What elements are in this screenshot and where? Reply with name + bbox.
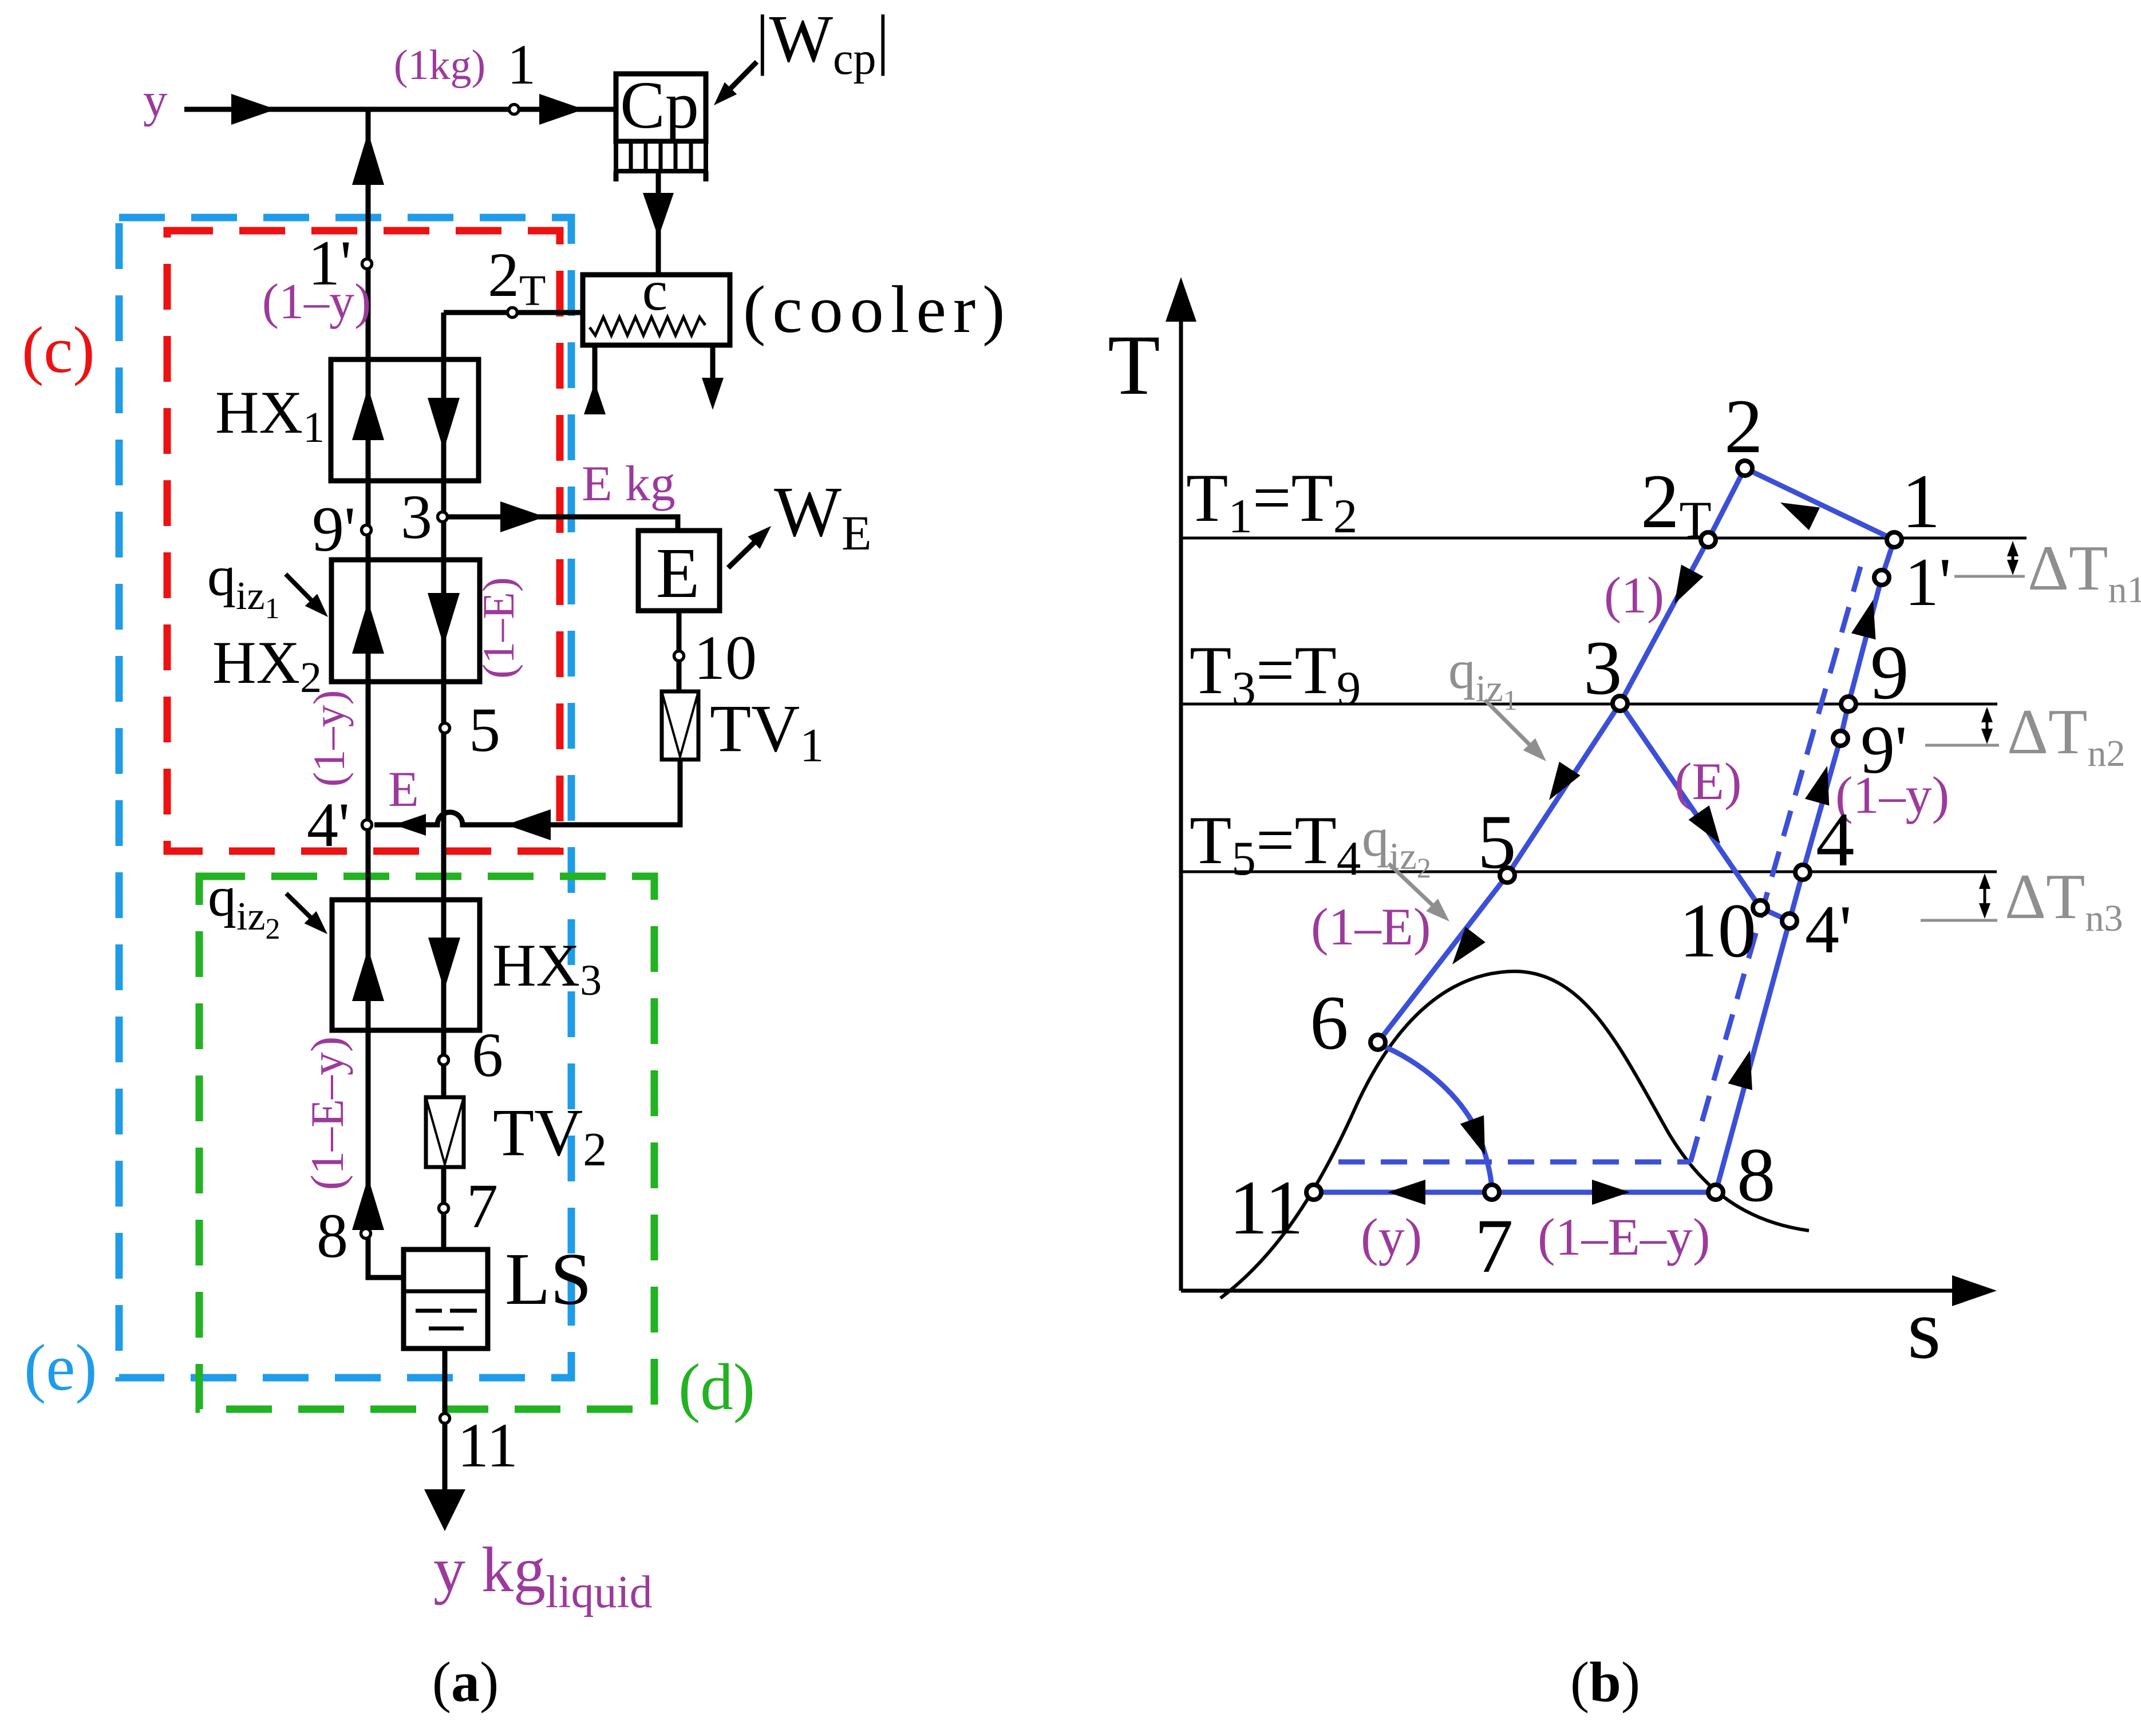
svg-text:Cp: Cp — [620, 68, 699, 143]
annotation arrow qiz1 gray — [1485, 700, 1530, 745]
svg-text:3: 3 — [401, 482, 432, 552]
annotation arrow qiz2 gray — [1389, 864, 1433, 905]
isotherm T3=T9 — [1181, 703, 1997, 706]
arrow up toward junction — [352, 132, 384, 185]
svg-text:1: 1 — [1902, 459, 1941, 544]
node 8 — [361, 1229, 371, 1239]
svg-text:(1–y): (1–y) — [262, 274, 372, 330]
svg-text:(1–E): (1–E) — [1311, 897, 1431, 956]
cycle line 2 to 2T to 3 to 5 to 6 — [1378, 468, 1745, 1042]
svg-text:(a): (a) — [432, 1650, 499, 1714]
wire cooler outlet to 2T — [444, 310, 583, 315]
svg-text:E: E — [388, 762, 419, 817]
svg-text:(y): (y) — [1361, 1208, 1422, 1266]
arrow down in HX3 right column — [428, 938, 460, 990]
arrow before Cp — [539, 94, 584, 125]
arrow on 8-4' — [1728, 1047, 1762, 1090]
heat exchanger HX1 — [331, 359, 479, 481]
svg-text:(E): (E) — [1674, 752, 1741, 810]
gray level line 1' — [1954, 575, 2025, 578]
node 7 — [439, 1204, 449, 1213]
arrow on 9-1' — [1851, 596, 1885, 639]
svg-text:2: 2 — [1724, 384, 1763, 469]
wire vertical process line x=775 from 2T down to LS top — [441, 313, 447, 1249]
node 4' — [1782, 914, 1797, 928]
liquid separator LS — [404, 1249, 488, 1349]
arrow on y feed line — [231, 94, 276, 125]
svg-text:s: s — [1907, 1282, 1941, 1377]
wire node 3 to expander E — [443, 517, 678, 531]
svg-text:T1=T2: T1=T2 — [1186, 460, 1357, 543]
svg-text:T3=T9: T3=T9 — [1190, 632, 1361, 715]
svg-text:6: 6 — [472, 1020, 503, 1090]
annotation arrow to WE — [728, 532, 765, 568]
svg-text:3: 3 — [1583, 626, 1622, 711]
svg-text:4': 4' — [307, 790, 350, 860]
node 8 — [1708, 1185, 1723, 1200]
node 1' — [362, 259, 372, 269]
node 7 — [1484, 1185, 1499, 1200]
node 3 — [438, 512, 448, 522]
isotherm T1=T2 — [1181, 537, 2027, 540]
svg-text:10: 10 — [694, 623, 757, 693]
svg-text:(c): (c) — [22, 314, 95, 386]
gray level line 4' — [1921, 919, 1997, 922]
arrow up in HX2 left column — [352, 601, 384, 654]
arrow down in HX2 right column — [428, 593, 460, 646]
svg-text:9: 9 — [1870, 630, 1909, 715]
wire E outlet to TV1 — [677, 611, 682, 691]
arrow up in HX3 left column — [352, 948, 384, 1001]
svg-text:4: 4 — [1816, 797, 1855, 883]
svg-text:8: 8 — [1737, 1133, 1776, 1218]
delta Tn3 marker — [1984, 877, 1986, 915]
node 10 — [1753, 900, 1768, 915]
arrow up in HX1 left column — [352, 387, 384, 440]
cycle branch (E) 3 to 10 to 4' — [1620, 703, 1790, 921]
svg-text:5: 5 — [1478, 800, 1516, 885]
arrow up above node 8 — [352, 1177, 384, 1230]
node 9' — [362, 525, 372, 535]
svg-text:(1kg): (1kg) — [394, 42, 485, 89]
throttle valve TV2 — [426, 1097, 464, 1167]
svg-text:11: 11 — [1229, 1165, 1303, 1251]
heat exchanger HX3 — [332, 900, 480, 1030]
arrow on 5-6 — [1443, 927, 1486, 972]
svg-text:8: 8 — [317, 1201, 348, 1271]
arrow small left on 4' line near node — [394, 814, 426, 836]
svg-text:7: 7 — [1475, 1204, 1514, 1289]
svg-text:9': 9' — [312, 494, 355, 565]
arrow down cooler right stub — [702, 378, 724, 410]
wire main top horizontal y feed to Cp — [184, 107, 616, 112]
node 9 — [1841, 697, 1856, 711]
arrow on 7-11 — [1388, 1180, 1425, 1205]
cycle line 11 to 7 to 8 — [1314, 1190, 1716, 1195]
boundary box (e) blue dashed — [119, 218, 571, 1378]
node 5 — [1500, 868, 1515, 883]
node 1 — [509, 105, 519, 114]
node 11 — [1306, 1185, 1321, 1200]
svg-text:1': 1' — [1905, 544, 1952, 620]
cycle curve 6 to 7 — [1378, 1044, 1492, 1192]
arrow on 1-2 — [1775, 491, 1820, 530]
node 4' — [362, 820, 372, 830]
svg-text:6: 6 — [1310, 980, 1349, 1066]
wire cooler left stub — [592, 345, 598, 414]
svg-text:E: E — [656, 534, 700, 613]
svg-text:(cooler): (cooler) — [743, 272, 1012, 347]
node 4 — [1795, 865, 1810, 880]
svg-text:11: 11 — [457, 1410, 518, 1480]
T axis — [1179, 321, 1183, 1291]
svg-text:T5=T4: T5=T4 — [1190, 802, 1361, 885]
wire vertical return line x=643 down to LS — [368, 109, 404, 1278]
node 1' — [1874, 570, 1889, 585]
annotation arrow to Cp — [720, 62, 757, 99]
svg-text:(1): (1) — [1604, 567, 1664, 624]
svg-text:7: 7 — [467, 1171, 498, 1241]
compressor Cp — [616, 68, 706, 181]
svg-text:5: 5 — [469, 695, 500, 765]
node 2T — [508, 308, 518, 318]
arrow down liquid exit below node 11 — [424, 1489, 465, 1531]
node 10 — [674, 651, 684, 661]
node 6 — [439, 1055, 449, 1065]
saturation dome — [1220, 971, 1809, 1298]
arrow node 3 to E — [500, 501, 545, 532]
wire TV1 outlet to node 4' with hop over x=775 — [374, 760, 680, 825]
cycle line 1 to 2 — [1745, 468, 1894, 540]
delta Tn1 marker — [2012, 545, 2014, 571]
node 2 — [1737, 461, 1752, 476]
svg-text:(e): (e) — [24, 1331, 97, 1404]
arrow on 3-10 — [1688, 805, 1731, 851]
node 6 — [1370, 1035, 1385, 1050]
node 1 — [1887, 532, 1902, 547]
arrow on 6-7 — [1460, 1115, 1497, 1159]
boundary box (c) red dashed — [167, 231, 560, 851]
arrow big left on 4' line — [506, 809, 551, 840]
boundary box (d) green dashed — [199, 876, 654, 1409]
wire LS bottom outlet to node 11 and exit — [443, 1349, 448, 1514]
svg-text:(1–y): (1–y) — [304, 690, 354, 787]
arrow on 3-5 — [1539, 762, 1581, 807]
svg-text:1: 1 — [507, 33, 536, 96]
svg-text:4': 4' — [1805, 891, 1852, 967]
svg-text:(1–E–y): (1–E–y) — [1538, 1208, 1710, 1266]
cooler c — [583, 259, 730, 345]
node 2T — [1701, 532, 1716, 547]
node 11 — [440, 1414, 450, 1423]
dashed line slanted up to 1' — [1690, 567, 1860, 1162]
arrow down in HX1 right column — [428, 398, 460, 450]
delta Tn2 marker — [1986, 710, 1989, 741]
svg-text:LS: LS — [505, 1238, 592, 1320]
arrow on 4-9' — [1805, 762, 1839, 805]
svg-text:10: 10 — [1679, 888, 1756, 974]
cycle return line 8 to 4' to 4 to 9' to 9 to 1' to 1 — [1716, 540, 1894, 1192]
svg-text:(b): (b) — [1570, 1650, 1640, 1714]
svg-text:T: T — [1108, 318, 1160, 413]
arrow up cooler left stub — [584, 382, 606, 414]
svg-text:(1–E): (1–E) — [473, 577, 523, 679]
svg-text:(1–E–y): (1–E–y) — [301, 1037, 353, 1191]
gray level line 9' — [1925, 744, 1999, 747]
svg-text:E kg: E kg — [582, 456, 676, 512]
arrow on 7-8 — [1592, 1180, 1630, 1205]
s axis — [1181, 1289, 1952, 1293]
wire Cp outlet down to cooler — [656, 171, 661, 275]
svg-text:c: c — [642, 259, 667, 322]
expander E — [638, 531, 720, 613]
isotherm T5=T4 — [1181, 871, 1997, 873]
throttle valve TV1 — [662, 691, 698, 760]
heat exchanger HX2 — [331, 560, 480, 682]
annotation arrow qiz2 — [286, 893, 318, 924]
dashed line horizontal 11 level — [1338, 1160, 1690, 1165]
arrow down Cp to cooler — [643, 193, 674, 238]
arrow on 2T-3 — [1664, 564, 1704, 610]
node 3 — [1613, 696, 1628, 711]
node 5 — [440, 723, 450, 733]
node 9' — [1833, 731, 1848, 746]
svg-text:y: y — [143, 73, 168, 127]
wire cooler right stub — [710, 345, 716, 385]
annotation arrow qiz1 — [286, 574, 318, 607]
svg-text:(d): (d) — [678, 1351, 755, 1423]
